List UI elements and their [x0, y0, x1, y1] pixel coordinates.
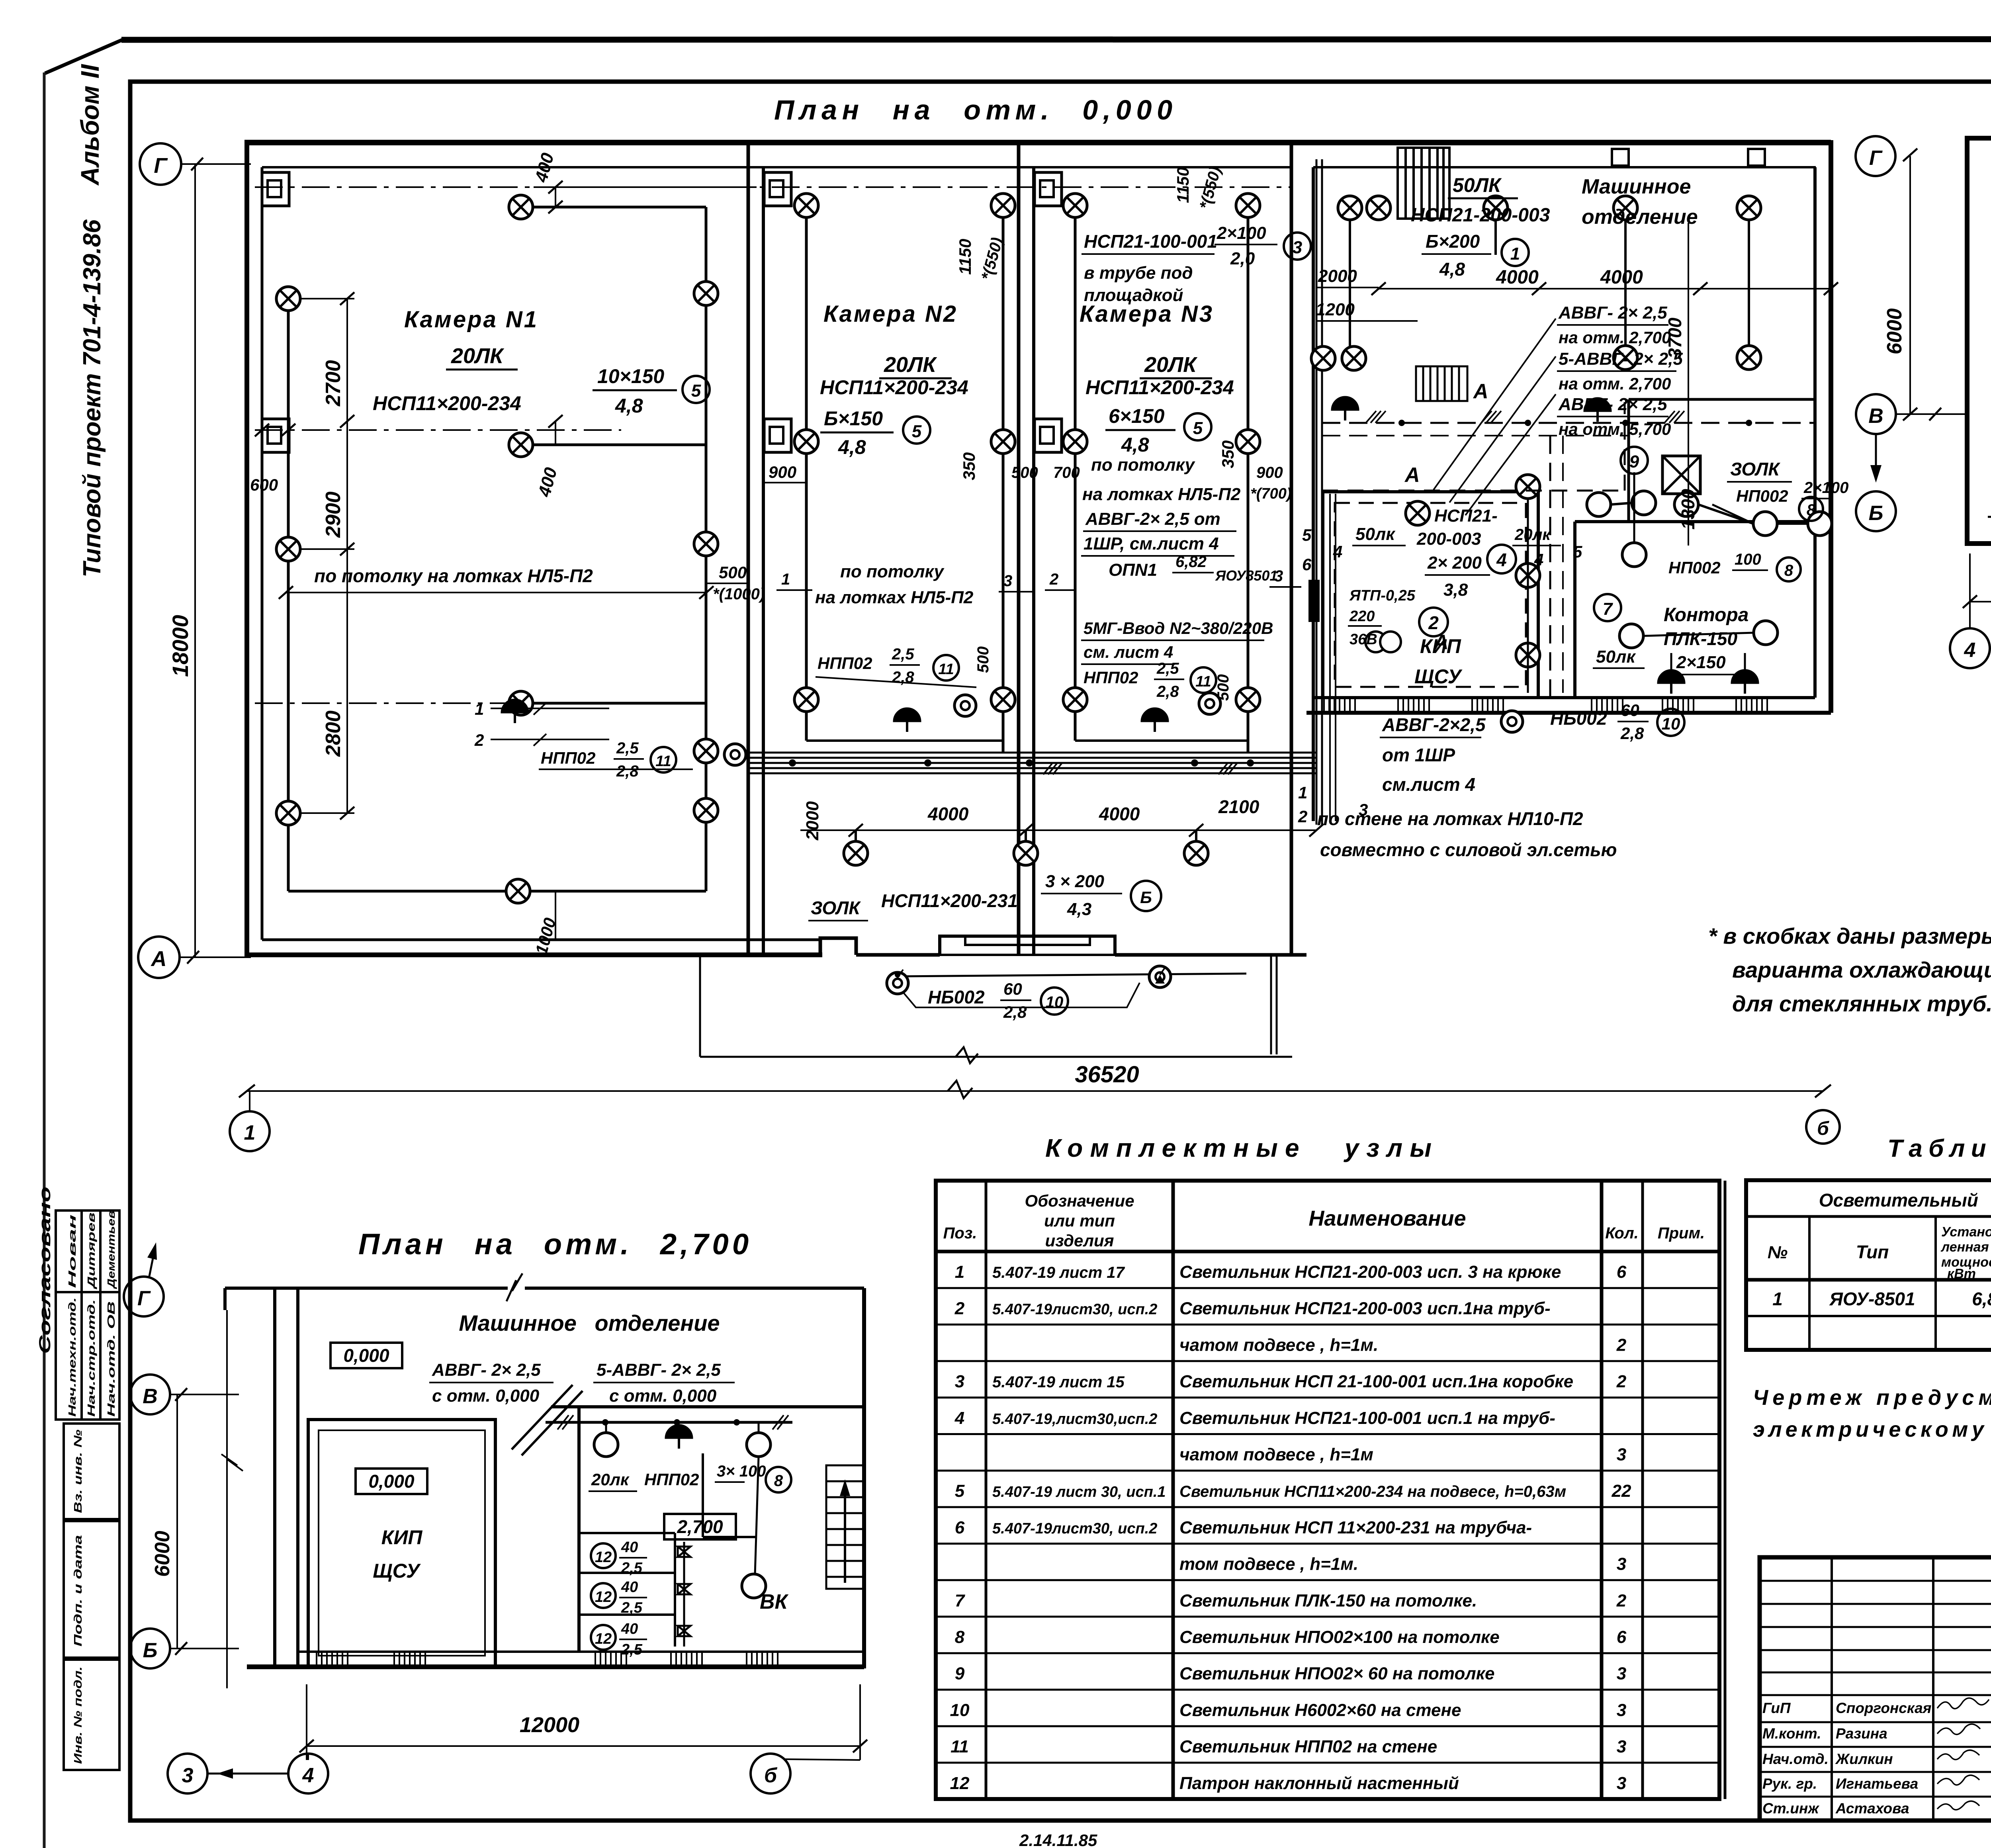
svg-text:4,3: 4,3 [1067, 900, 1091, 919]
svg-text:НСП11×200-234: НСП11×200-234 [1085, 376, 1234, 399]
plan5700 vertical dim 6000 [1909, 156, 1911, 414]
svg-text:1ШР, см.лист 4: 1ШР, см.лист 4 [1084, 534, 1219, 553]
svg-text:4000: 4000 [927, 804, 969, 824]
svg-text:по потолку: по потолку [840, 562, 945, 581]
distribution panel 1ShR black box [1308, 580, 1320, 622]
svg-text:2: 2 [1428, 612, 1439, 633]
svg-text:6000: 6000 [1883, 308, 1906, 354]
plan 2700 left wall [223, 1288, 227, 1310]
plan 5700 building outline [1967, 138, 1991, 544]
circle 10 [1657, 709, 1684, 736]
cable riser diagonals [512, 1385, 573, 1449]
plan 2700 bottom wall [247, 1664, 864, 1669]
machine top dim line [1379, 288, 1831, 289]
svg-text:50лк: 50лк [1596, 647, 1636, 667]
machine bottom wall window hatch 2 [1398, 698, 1429, 713]
svg-text:чатом подвесе , h=1м.: чатом подвесе , h=1м. [1179, 1335, 1378, 1355]
plan5700 V leader [1896, 413, 1967, 415]
axis circle A left [138, 937, 180, 978]
svg-text:Дитярев: Дитярев [85, 1212, 97, 1290]
svg-text:100: 100 [1735, 551, 1761, 568]
svg-text:Осветительный пункт: Осветительный пункт [1819, 1190, 1991, 1210]
chamber1 wire branch lower [521, 702, 706, 705]
svg-text:5.407-19 лист 30, исп.1: 5.407-19 лист 30, исп.1 [992, 1484, 1166, 1500]
chamber1 dim 2800 [346, 549, 348, 813]
bundle junction dots [789, 759, 796, 767]
chamber1 circuit labels 1 2 [491, 708, 609, 709]
emergency dome lamp right [1584, 398, 1611, 422]
svg-text:600: 600 [250, 475, 278, 494]
svg-text:3: 3 [1617, 1664, 1626, 1684]
small rooms dividers [579, 1532, 675, 1534]
svg-text:2: 2 [954, 1299, 965, 1318]
svg-text:В: В [1868, 405, 1883, 428]
circle 12 row 3 [591, 1625, 616, 1650]
svg-text:Ст.инж: Ст.инж [1762, 1800, 1819, 1817]
right rooms top wall [551, 1405, 864, 1408]
svg-text:Нач.отд. ОВ: Нач.отд. ОВ [105, 1301, 117, 1417]
chamber3 wall lamp [1199, 693, 1220, 714]
level box 0,000 a [331, 1343, 402, 1368]
machine top lamp stems [1350, 220, 1749, 358]
machine room right wall [1813, 167, 1817, 698]
svg-text:2800: 2800 [322, 710, 345, 757]
svg-text:АВВГ- 2× 2,5: АВВГ- 2× 2,5 [1558, 395, 1667, 414]
svg-text:10: 10 [950, 1700, 970, 1720]
valve pipe 2700 [683, 1542, 685, 1647]
svg-text:1150: 1150 [1173, 167, 1192, 203]
kontora ceiling lamps [1619, 624, 1643, 648]
svg-text:3: 3 [1617, 1445, 1626, 1465]
svg-text:НСП21-200-003: НСП21-200-003 [1411, 205, 1550, 226]
svg-text:с отм. 0,000: с отм. 0,000 [432, 1386, 540, 1406]
KIP room top wall [1323, 490, 1538, 493]
svg-text:ГиП: ГиП [1762, 1700, 1791, 1716]
svg-text:2700: 2700 [322, 360, 345, 407]
svg-text:Машинное отделение: Машинное отделение [459, 1310, 720, 1336]
chamber3 wire left run [1074, 205, 1077, 741]
svg-text:900: 900 [769, 463, 796, 481]
top wall square box 1 [1612, 149, 1629, 166]
svg-text:ПЛК-150: ПЛК-150 [1664, 628, 1737, 649]
svg-text:11: 11 [938, 661, 954, 678]
svg-text:Б: Б [1869, 502, 1883, 525]
plan2700 dim 12000 [307, 1745, 860, 1747]
svg-text:Типовой проект 701-4-139.86: Типовой проект 701-4-139.86 [78, 219, 106, 577]
chamber3 lamps [1063, 194, 1087, 217]
kontora room left wall [1573, 522, 1576, 698]
svg-text:Б×200: Б×200 [1426, 231, 1480, 252]
svg-text:3× 100: 3× 100 [717, 1463, 766, 1480]
svg-text:0,000: 0,000 [343, 1345, 389, 1366]
svg-text:2: 2 [474, 731, 484, 749]
stamp box A rotated labels [66, 1210, 117, 1417]
svg-text:10×150: 10×150 [597, 365, 664, 387]
svg-text:КИП: КИП [381, 1526, 423, 1549]
machine room second lamp row [1311, 346, 1335, 370]
emergency dome lamp left [1332, 397, 1359, 420]
machine room bottom wall [1313, 696, 1815, 699]
svg-text:4,8: 4,8 [838, 436, 866, 458]
svg-text:2,5: 2,5 [621, 1560, 643, 1576]
plan 2700 top wall [225, 1287, 508, 1290]
svg-text:Разина: Разина [1836, 1725, 1887, 1742]
machine room centre lamps [1406, 501, 1430, 525]
circled 7 kontora [1594, 594, 1621, 621]
svg-text:НБ002: НБ002 [1550, 708, 1607, 729]
svg-text:Согласовано: Согласовано [36, 1187, 54, 1354]
svg-text:Светильник НСП 11×200-231 на т: Светильник НСП 11×200-231 на трубча- [1179, 1518, 1532, 1537]
svg-text:350: 350 [1218, 440, 1237, 468]
svg-text:для стеклянных труб.: для стеклянных труб. [1732, 991, 1991, 1016]
KIP room 2700 [308, 1420, 495, 1666]
circled 9 upper right [1621, 447, 1648, 474]
svg-text:ЩСУ: ЩСУ [373, 1560, 421, 1582]
svg-text:5.407-19 лист 15: 5.407-19 лист 15 [992, 1373, 1125, 1391]
svg-text:5.407-19,лист30,исп.2: 5.407-19,лист30,исп.2 [992, 1411, 1157, 1428]
svg-text:Светильник НСП21-200-003 исп.1: Светильник НСП21-200-003 исп.1на труб- [1179, 1299, 1551, 1318]
svg-text:2.14.11.85: 2.14.11.85 [1019, 1831, 1097, 1848]
plan2700 axis 4 [288, 1754, 328, 1793]
svg-text:Вз. инв. №: Вз. инв. № [72, 1430, 84, 1513]
svg-text:Кол.: Кол. [1605, 1224, 1639, 1242]
svg-text:2: 2 [1616, 1372, 1627, 1391]
machine room top wall inner face [1313, 166, 1816, 168]
chamber1 dim 1000 bottom [555, 891, 556, 940]
stamp box C [64, 1660, 119, 1770]
svg-text:3 × 200: 3 × 200 [1045, 872, 1105, 891]
svg-text:А: А [151, 947, 167, 971]
svg-text:40: 40 [621, 1621, 638, 1637]
leader diagonal to cable label 2 [1449, 356, 1556, 503]
svg-text:1: 1 [475, 700, 484, 718]
chamber3 bottom connector [1075, 739, 1248, 742]
svg-text:Камера N1: Камера N1 [404, 307, 538, 332]
chamber1 dim 600 [255, 424, 269, 436]
svg-text:4,8: 4,8 [1439, 259, 1465, 280]
circle 3 [1284, 233, 1311, 260]
chamber1 wire branch middle [521, 444, 706, 446]
svg-text:Жилкин: Жилкин [1835, 1751, 1893, 1767]
svg-text:на лотках НЛ5-П2: на лотках НЛ5-П2 [1082, 485, 1241, 504]
machine bottom wall window hatch 5 [1662, 698, 1694, 713]
svg-text:3: 3 [1617, 1555, 1626, 1574]
svg-text:6: 6 [1302, 555, 1312, 574]
svg-text:ЗОЛК: ЗОЛК [811, 898, 861, 918]
svg-text:2× 200: 2× 200 [1427, 553, 1482, 573]
svg-text:2,8: 2,8 [616, 763, 639, 780]
KIP room left wall [1321, 492, 1324, 698]
wall lamp NB002 at machine bottom [1501, 711, 1523, 732]
table2 grid [1746, 1180, 1991, 1350]
machine wire junction dots [1398, 420, 1405, 426]
svg-text:№: № [1768, 1243, 1788, 1262]
svg-text:4: 4 [954, 1408, 964, 1428]
svg-text:6×150: 6×150 [1109, 405, 1165, 427]
svg-text:ЯОУ-8501: ЯОУ-8501 [1829, 1289, 1915, 1309]
svg-text:АВВГ- 2× 2,5: АВВГ- 2× 2,5 [432, 1360, 541, 1380]
svg-text:1150: 1150 [956, 239, 974, 275]
svg-text:1: 1 [1298, 783, 1307, 802]
svg-text:НПП02: НПП02 [541, 749, 595, 767]
svg-text:М.конт.: М.конт. [1762, 1725, 1821, 1742]
svg-text:6: 6 [1617, 1627, 1627, 1647]
svg-text:Нач.техн.отд.: Нач.техн.отд. [66, 1297, 78, 1417]
svg-text:ЗОЛК: ЗОЛК [1730, 459, 1780, 479]
svg-text:2: 2 [1049, 571, 1058, 588]
svg-text:6,82: 6,82 [1972, 1289, 1991, 1309]
svg-text:8: 8 [955, 1627, 965, 1647]
svg-text:варианта охлаждающих батарей: варианта охлаждающих батарей [1732, 957, 1991, 982]
corridor lamp 1 [844, 841, 868, 865]
svg-text:Споргонская: Споргонская [1836, 1700, 1932, 1716]
svg-text:7: 7 [955, 1591, 966, 1610]
chambers bottom wall inner face [262, 939, 820, 941]
machine room top lamp row [1338, 196, 1362, 220]
svg-text:ОПN1: ОПN1 [1109, 560, 1157, 580]
sheet corner diagonal cut [45, 40, 122, 73]
svg-text:*(1000): *(1000) [713, 585, 765, 603]
svg-text:Тип: Тип [1856, 1242, 1889, 1262]
svg-text:20ЛК: 20ЛК [1144, 353, 1198, 377]
svg-text:том подвесе , h=1м.: том подвесе , h=1м. [1179, 1555, 1358, 1574]
svg-text:20ЛК: 20ЛК [451, 344, 505, 368]
plan5700 axis B [1856, 491, 1896, 531]
svg-text:2,5: 2,5 [892, 645, 914, 663]
svg-text:40: 40 [621, 1579, 638, 1596]
svg-text:Установ-: Установ- [1941, 1224, 1991, 1240]
svg-text:* в скобках даны размеры тольк: * в скобках даны размеры только для [1708, 923, 1991, 948]
wall pilaster symbols [262, 172, 289, 206]
svg-text:2×100: 2×100 [1217, 223, 1266, 243]
svg-text:5: 5 [955, 1481, 965, 1501]
svg-text:в трубе под: в трубе под [1084, 263, 1193, 283]
chamber1 wire left run [287, 299, 290, 891]
svg-text:36В: 36В [1349, 631, 1377, 648]
svg-text:3: 3 [182, 1764, 194, 1787]
plan 2700 axis wall double [273, 1288, 276, 1668]
stairs 2700 [826, 1465, 864, 1589]
axis circle 4 plan5700 [1950, 628, 1990, 668]
svg-text:Камера N2: Камера N2 [823, 301, 958, 327]
svg-text:3,8: 3,8 [1443, 580, 1468, 600]
kontora room top wall [1575, 520, 1815, 523]
svg-text:1: 1 [1510, 244, 1520, 264]
axis circle 1 bottom [249, 1091, 250, 1111]
svg-text:б: б [1817, 1118, 1829, 1139]
svg-text:В: В [143, 1385, 158, 1408]
chamber1 dim 400 middle [555, 421, 556, 445]
south wall step [820, 938, 856, 955]
svg-text:4,8: 4,8 [1121, 434, 1149, 456]
svg-text:3: 3 [1617, 1774, 1626, 1793]
svg-text:5: 5 [1193, 418, 1203, 438]
svg-text:36520: 36520 [1075, 1062, 1139, 1087]
machine room wire hooks row [1366, 411, 1684, 423]
svg-text:12: 12 [595, 1589, 612, 1606]
svg-text:Прим.: Прим. [1658, 1224, 1705, 1242]
building top wall [244, 140, 1831, 145]
upper right room wall horizontal [1629, 398, 1815, 401]
machine bottom wall window hatch 1 [1324, 698, 1355, 713]
svg-text:7: 7 [1603, 599, 1614, 619]
svg-text:12: 12 [950, 1774, 970, 1793]
svg-text:3: 3 [955, 1372, 964, 1391]
corridor lamp 2 [1014, 841, 1038, 865]
chamber2 wire right run [1002, 195, 1005, 753]
stamp box B2 [64, 1521, 119, 1658]
chamber2 emergency dome [894, 708, 921, 732]
svg-text:6000: 6000 [151, 1531, 174, 1577]
svg-text:4000: 4000 [1099, 804, 1140, 824]
transformer symbol YATP [1365, 632, 1386, 652]
svg-text:22: 22 [1612, 1481, 1631, 1501]
svg-text:5: 5 [1302, 526, 1312, 544]
kontora wire [1643, 633, 1754, 636]
circle 12 row 1 [591, 1543, 616, 1568]
level box 2,700 [664, 1514, 736, 1539]
chamber2 wall lamp [954, 695, 976, 716]
chambers bottom wall [244, 952, 822, 957]
svg-text:Б×150: Б×150 [824, 407, 883, 430]
dock label outline [903, 983, 1140, 1007]
svg-text:Инв. № подл.: Инв. № подл. [72, 1666, 84, 1764]
circled 4 [1487, 545, 1516, 573]
svg-text:2,5: 2,5 [616, 739, 639, 757]
svg-text:9: 9 [1629, 452, 1639, 471]
svg-text:по потолку на лотках НЛ5-П2: по потолку на лотках НЛ5-П2 [314, 565, 593, 586]
pendant lamps 2700 [594, 1433, 618, 1457]
svg-text:4000: 4000 [1600, 267, 1643, 288]
svg-text:НСП11×200-234: НСП11×200-234 [373, 392, 521, 415]
chamber divider wall 2-3 [1017, 144, 1021, 955]
svg-text:4: 4 [1496, 550, 1507, 570]
svg-text:Б: Б [143, 1639, 158, 1662]
stamp box B1 [64, 1424, 119, 1519]
svg-text:0,000: 0,000 [368, 1471, 415, 1492]
svg-text:10: 10 [1046, 993, 1064, 1011]
hatch band middle [1416, 366, 1467, 401]
svg-text:Поз.: Поз. [943, 1224, 977, 1242]
svg-text:Светильник НПО02× 60 на потолк: Светильник НПО02× 60 на потолке [1179, 1664, 1494, 1684]
dock NB002 wall lamp line [898, 974, 1246, 976]
plan2700 dim 6000 [176, 1394, 178, 1649]
table2 data row [1772, 1289, 1991, 1309]
svg-text:НСП21-100-001: НСП21-100-001 [1084, 231, 1217, 252]
svg-text:А: А [1404, 463, 1420, 487]
svg-text:на отм. 2,700: на отм. 2,700 [1559, 374, 1671, 393]
KIP room inner dashed outline [1335, 503, 1526, 687]
svg-text:18000: 18000 [168, 615, 193, 677]
svg-text:1200: 1200 [1316, 300, 1355, 319]
svg-text:2×100: 2×100 [1803, 479, 1848, 497]
svg-text:900: 900 [1256, 464, 1283, 481]
svg-text:220: 220 [1349, 608, 1375, 625]
svg-text:Светильник ПЛК-150 на потолке.: Светильник ПЛК-150 на потолке. [1179, 1591, 1477, 1610]
chamber3 group circle 5 [1184, 413, 1211, 440]
svg-text:2000: 2000 [1318, 266, 1357, 286]
svg-text:НСП11×200-231: НСП11×200-231 [881, 890, 1018, 911]
svg-text:Светильник НСП 21-100-001 исп.: Светильник НСП 21-100-001 исп.1на коробк… [1179, 1372, 1573, 1391]
svg-text:Патрон наклонный настенный: Патрон наклонный настенный [1179, 1774, 1459, 1793]
svg-text:совместно с силовой эл.сетью: совместно с силовой эл.сетью [1320, 839, 1617, 860]
svg-text:20лк: 20лк [591, 1470, 630, 1489]
leader diagonal to cable label 3 [1465, 394, 1556, 515]
svg-text:или тип: или тип [1044, 1211, 1115, 1230]
svg-text:см. лист 4: см. лист 4 [1084, 643, 1173, 661]
svg-text:ЩСУ: ЩСУ [1414, 665, 1463, 688]
chamber1 wire right run [705, 207, 708, 891]
svg-text:2100: 2100 [1218, 796, 1260, 817]
chamber2 wire left run [805, 205, 808, 741]
svg-text:НСП21-: НСП21- [1434, 506, 1498, 526]
machine room vertical dashed corridor [1549, 436, 1551, 698]
svg-text:Светильник НСП21-100-001 исп.1: Светильник НСП21-100-001 исп.1 на труб- [1179, 1408, 1555, 1428]
svg-text:кВт: кВт [1947, 1266, 1976, 1281]
chamber1 wire bottom connector [288, 890, 706, 893]
svg-text:2: 2 [1298, 807, 1307, 826]
svg-text:8: 8 [774, 1472, 783, 1490]
svg-text:на лотках НЛ5-П2: на лотках НЛ5-П2 [815, 588, 974, 607]
chamber3 / machine room wall [1290, 144, 1293, 955]
top wall square box 2 [1748, 149, 1765, 166]
svg-text:5.407-19лист30, исп.2: 5.407-19лист30, исп.2 [992, 1301, 1157, 1318]
building top wall inner face [262, 166, 1291, 168]
svg-text:1: 1 [955, 1262, 964, 1282]
title block signature rows [1762, 1700, 1991, 1817]
svg-text:1300: 1300 [1678, 489, 1698, 530]
svg-text:НСП11×200-234: НСП11×200-234 [820, 376, 968, 399]
chamber1 wall lamp [724, 744, 746, 765]
circle 2 [1419, 608, 1448, 636]
svg-text:200-003: 200-003 [1416, 529, 1481, 549]
axis A leader [180, 956, 251, 958]
axis circle G left [140, 143, 181, 185]
stair hatch top [1398, 148, 1449, 219]
fan box with X [1662, 456, 1700, 494]
VK room wall [702, 1453, 704, 1537]
svg-text:500: 500 [719, 563, 747, 582]
cable tray bundle horizontal [748, 753, 1316, 773]
svg-text:см.лист 4: см.лист 4 [1382, 774, 1475, 795]
svg-text:Наименование: Наименование [1308, 1207, 1466, 1230]
svg-text:НПП02: НПП02 [818, 654, 872, 673]
svg-text:1: 1 [244, 1121, 256, 1144]
svg-text:Б: Б [1140, 888, 1152, 907]
upper-right room lamp connectors [1611, 503, 1632, 505]
svg-text:2: 2 [1616, 1335, 1627, 1355]
svg-text:12: 12 [595, 1631, 612, 1647]
svg-text:60: 60 [1003, 980, 1022, 998]
svg-text:НПП02: НПП02 [1084, 668, 1138, 687]
south wall middle segment [856, 953, 940, 957]
svg-text:по потолку: по потолку [1091, 455, 1195, 475]
svg-text:Дементьев: Дементьев [105, 1210, 117, 1289]
upper right room wall vertical [1627, 399, 1630, 522]
svg-text:Светильник НПО02×100 на потолк: Светильник НПО02×100 на потолке [1179, 1627, 1500, 1647]
svg-text:Г: Г [154, 154, 168, 178]
svg-text:Игнатьева: Игнатьева [1836, 1776, 1918, 1792]
chamber2 group circle 5 [903, 417, 930, 444]
corridor lamp 2 stem [1025, 830, 1027, 841]
svg-text:Астахова: Астахова [1835, 1800, 1909, 1817]
svg-text:площадкой: площадкой [1084, 286, 1183, 305]
svg-text:с отм. 0,000: с отм. 0,000 [609, 1386, 717, 1406]
dashed circuit line across machine room [1322, 490, 1625, 492]
chamber1 lamps [276, 287, 300, 311]
svg-text:КИП: КИП [1420, 635, 1461, 657]
chamber1 dim column 2700/2900 [346, 299, 348, 549]
